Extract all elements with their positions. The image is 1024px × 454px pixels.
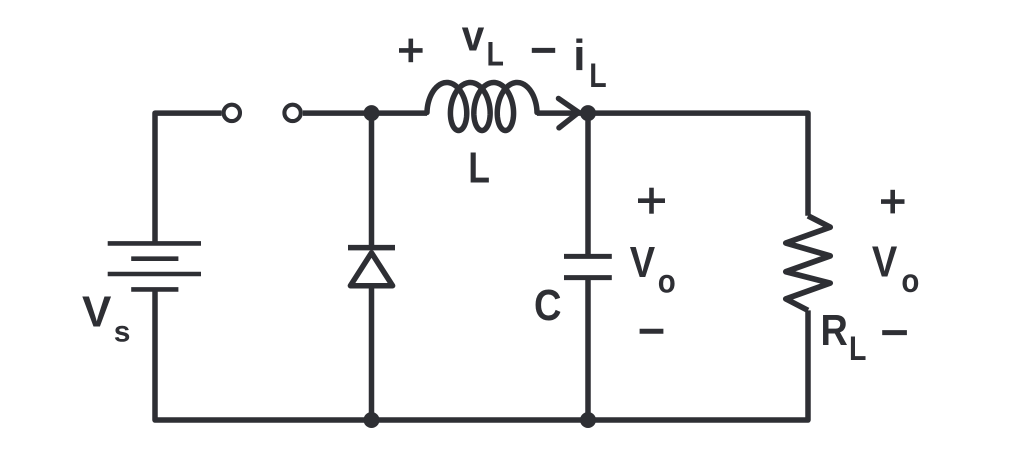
diode D cathode bar bbox=[348, 245, 395, 251]
wire bbox=[369, 113, 375, 248]
svg-text:s: s bbox=[114, 316, 131, 349]
node junction dot top diode bbox=[364, 105, 380, 121]
switch terminal circle right bbox=[284, 105, 300, 121]
label - (vL) bbox=[532, 48, 555, 53]
svg-text:V: V bbox=[630, 238, 656, 287]
svg-text:L: L bbox=[487, 36, 504, 74]
svg-text:L: L bbox=[849, 330, 866, 368]
svg-text:L: L bbox=[589, 57, 606, 95]
svg-text:C: C bbox=[534, 281, 562, 330]
wire bbox=[585, 113, 591, 254]
svg-text:R: R bbox=[821, 306, 848, 355]
battery Vs plates bbox=[108, 243, 201, 289]
diode D triangle bbox=[350, 253, 392, 286]
label + (C) bbox=[638, 188, 665, 214]
label + (vL) bbox=[399, 39, 423, 63]
wire bbox=[155, 113, 222, 243]
wire bbox=[588, 310, 808, 420]
wire bbox=[369, 286, 375, 420]
node junction dot top capacitor bbox=[580, 105, 596, 121]
svg-text:v: v bbox=[462, 12, 485, 61]
wire bbox=[372, 417, 589, 423]
label - (C) bbox=[640, 329, 664, 334]
wire bbox=[537, 110, 588, 116]
svg-text:o: o bbox=[658, 262, 676, 299]
resistor RL zigzag bbox=[786, 216, 830, 311]
svg-text:V: V bbox=[872, 238, 898, 287]
label - (RL) bbox=[882, 330, 907, 335]
svg-text:L: L bbox=[468, 143, 490, 192]
node junction dot bottom diode bbox=[364, 412, 380, 428]
wire bbox=[303, 110, 427, 116]
current arrow iL bbox=[559, 99, 579, 128]
wire bbox=[585, 280, 591, 420]
label + (RL) bbox=[881, 190, 905, 214]
inductor L coil bbox=[427, 83, 537, 131]
wire bbox=[155, 289, 372, 420]
switch terminal circle left bbox=[224, 105, 240, 121]
svg-text:i: i bbox=[573, 31, 585, 80]
svg-text:o: o bbox=[901, 262, 919, 299]
capacitor C plates bbox=[564, 256, 612, 277]
wire bbox=[588, 113, 808, 216]
svg-text:V: V bbox=[82, 288, 112, 337]
node junction dot bottom capacitor bbox=[580, 412, 596, 428]
